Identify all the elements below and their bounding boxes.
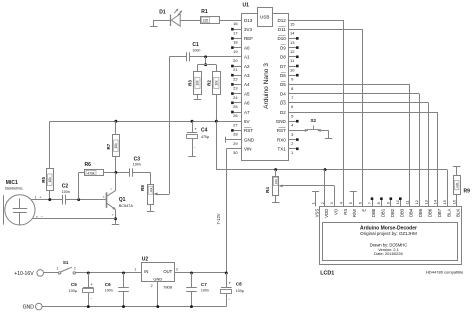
- svg-text:25: 25: [233, 104, 238, 109]
- svg-text:20: 20: [233, 58, 238, 63]
- svg-text:3V3: 3V3: [244, 27, 253, 32]
- svg-text:6: 6: [358, 202, 362, 204]
- svg-text:GND: GND: [276, 119, 287, 124]
- svg-text:7: 7: [368, 202, 372, 204]
- svg-text:1: 1: [135, 267, 137, 271]
- svg-text:10: 10: [290, 67, 295, 72]
- svg-text:REF: REF: [244, 36, 253, 41]
- svg-text:~: ~: [90, 297, 92, 301]
- svg-text:15: 15: [443, 200, 447, 204]
- svg-text:D6: D6: [280, 73, 286, 78]
- svg-text:D9: D9: [280, 45, 286, 50]
- svg-text:VIN: VIN: [244, 147, 252, 152]
- svg-text:BC547A: BC547A: [119, 204, 134, 208]
- svg-text:R3: R3: [188, 80, 193, 86]
- svg-text:470µ: 470µ: [201, 135, 209, 139]
- svg-text:7-12V: 7-12V: [216, 213, 221, 224]
- svg-text:+10-16V: +10-16V: [14, 271, 34, 277]
- svg-text:~: ~: [194, 146, 196, 150]
- svg-text:DB6: DB6: [428, 208, 433, 217]
- svg-text:R8: R8: [140, 185, 145, 191]
- svg-text:R7: R7: [106, 143, 111, 149]
- svg-text:A3: A3: [244, 73, 250, 78]
- svg-text:+: +: [194, 127, 197, 132]
- svg-text:GND: GND: [244, 137, 255, 142]
- svg-text:27: 27: [233, 122, 238, 127]
- svg-text:5: 5: [349, 202, 353, 204]
- svg-text:23: 23: [233, 86, 238, 91]
- svg-text:1: 1: [35, 195, 37, 199]
- svg-text:28: 28: [233, 132, 238, 137]
- svg-text:100µ: 100µ: [236, 289, 244, 293]
- svg-text:A6: A6: [244, 101, 250, 106]
- svg-text:~: ~: [228, 298, 230, 302]
- svg-text:12: 12: [290, 49, 295, 54]
- svg-text:10k: 10k: [48, 177, 52, 183]
- svg-text:13: 13: [290, 40, 295, 45]
- svg-text:DB1: DB1: [380, 208, 385, 217]
- svg-text:13: 13: [424, 200, 428, 204]
- svg-text:VSS: VSS: [315, 209, 320, 218]
- svg-text:D7: D7: [280, 64, 286, 69]
- svg-text:A7: A7: [244, 110, 250, 115]
- svg-text:100µ: 100µ: [69, 289, 77, 293]
- svg-text:VDD: VDD: [324, 209, 329, 218]
- svg-text:C8: C8: [236, 282, 242, 287]
- svg-text:DB2: DB2: [390, 208, 395, 217]
- svg-text:C7: C7: [201, 282, 207, 287]
- svg-text:14: 14: [290, 31, 295, 36]
- svg-text:A2: A2: [244, 64, 250, 69]
- svg-text:16: 16: [233, 21, 238, 26]
- svg-text:R5: R5: [41, 176, 46, 182]
- svg-text:22: 22: [233, 76, 238, 81]
- svg-text:A0: A0: [244, 45, 250, 50]
- svg-text:R6: R6: [85, 162, 92, 168]
- svg-text:24: 24: [233, 95, 238, 100]
- svg-text:29: 29: [233, 141, 238, 146]
- svg-text:A5: A5: [244, 91, 250, 96]
- svg-text:2: 2: [74, 267, 76, 271]
- svg-text:RST: RST: [244, 128, 253, 133]
- svg-text:MIC1: MIC1: [6, 180, 18, 186]
- svg-text:C6: C6: [105, 282, 111, 287]
- svg-text:7808: 7808: [163, 284, 173, 289]
- svg-text:100n: 100n: [133, 163, 141, 167]
- svg-text:16: 16: [453, 200, 457, 204]
- svg-text:RS: RS: [343, 209, 348, 215]
- svg-text:10k: 10k: [149, 187, 153, 192]
- svg-text:BLK: BLK: [456, 209, 461, 217]
- svg-text:E: E: [362, 209, 367, 212]
- svg-text:C4: C4: [201, 128, 208, 134]
- svg-text:3: 3: [330, 202, 334, 204]
- svg-text:+: +: [39, 195, 41, 199]
- svg-text:D11: D11: [278, 27, 286, 32]
- svg-text:100n: 100n: [62, 190, 70, 194]
- svg-text:RX0: RX0: [277, 137, 286, 142]
- svg-text:5V: 5V: [244, 119, 250, 124]
- svg-text:R2: R2: [207, 80, 212, 86]
- svg-text:C5: C5: [71, 282, 77, 287]
- svg-text:3: 3: [176, 267, 178, 271]
- svg-text:26: 26: [233, 113, 238, 118]
- svg-text:DB5: DB5: [418, 208, 423, 217]
- svg-text:USB: USB: [260, 15, 269, 20]
- svg-text:RST: RST: [277, 128, 286, 133]
- svg-text:8: 8: [377, 202, 381, 204]
- svg-text:LCD1: LCD1: [320, 271, 334, 277]
- svg-text:10k: 10k: [274, 179, 278, 184]
- svg-text:OUT: OUT: [163, 269, 172, 274]
- svg-text:100n: 100n: [201, 289, 209, 293]
- svg-text:1: 1: [57, 267, 59, 271]
- svg-text:D2: D2: [280, 110, 286, 115]
- svg-text:10: 10: [396, 200, 400, 204]
- svg-text:DB3: DB3: [399, 208, 404, 217]
- svg-text:+: +: [91, 282, 94, 287]
- svg-text:S1: S1: [63, 260, 69, 265]
- svg-text:U1: U1: [243, 3, 250, 9]
- svg-text:D1: D1: [159, 9, 166, 15]
- svg-text:30: 30: [233, 150, 238, 155]
- svg-text:Arduino Nano 3: Arduino Nano 3: [263, 63, 270, 109]
- svg-text:DB4: DB4: [409, 208, 414, 217]
- svg-text:S2: S2: [310, 118, 316, 123]
- svg-text:11: 11: [406, 200, 410, 204]
- svg-text:C1: C1: [192, 42, 199, 48]
- svg-text:D8: D8: [280, 55, 286, 60]
- svg-text:2: 2: [321, 202, 325, 204]
- svg-text:470k: 470k: [87, 171, 95, 175]
- svg-text:17: 17: [233, 30, 238, 35]
- svg-text:TX1: TX1: [278, 147, 287, 152]
- svg-text:1: 1: [311, 202, 315, 204]
- svg-text:15: 15: [290, 21, 295, 26]
- svg-text:Original project by: OZ1JHM: Original project by: OZ1JHM: [360, 231, 417, 236]
- svg-text:R9: R9: [464, 189, 471, 195]
- svg-text:100n: 100n: [192, 48, 200, 52]
- svg-text:D13: D13: [244, 18, 253, 23]
- svg-text:+: +: [229, 281, 232, 286]
- svg-text:10k: 10k: [196, 80, 200, 86]
- svg-text:GND: GND: [153, 276, 162, 281]
- svg-text:D12: D12: [278, 18, 287, 23]
- svg-text:VO: VO: [333, 208, 338, 215]
- svg-text:21: 21: [233, 67, 238, 72]
- svg-text:BLA: BLA: [446, 209, 451, 217]
- svg-text:220: 220: [455, 182, 459, 187]
- svg-text:Date: 20160226: Date: 20160226: [374, 251, 403, 256]
- svg-text:2: 2: [151, 284, 153, 288]
- svg-text:HD44780 compatible: HD44780 compatible: [426, 270, 464, 275]
- svg-text:R/W: R/W: [352, 208, 357, 217]
- svg-text:Q1: Q1: [119, 197, 126, 203]
- svg-text:DB7: DB7: [437, 208, 442, 217]
- svg-text:A1: A1: [244, 55, 250, 60]
- svg-text:DB0: DB0: [371, 208, 376, 217]
- svg-text:10k: 10k: [114, 143, 118, 149]
- svg-text:14: 14: [434, 200, 438, 204]
- svg-text:18: 18: [233, 40, 238, 45]
- svg-text:4: 4: [340, 202, 344, 204]
- svg-text:R1: R1: [201, 9, 208, 15]
- svg-text:C2: C2: [62, 184, 69, 190]
- svg-text:Elektretmic.: Elektretmic.: [5, 186, 23, 190]
- svg-text:A4: A4: [244, 82, 250, 87]
- svg-text:D10: D10: [278, 36, 287, 41]
- svg-text:220: 220: [203, 18, 209, 22]
- svg-text:19: 19: [233, 49, 238, 54]
- svg-text:D4: D4: [280, 91, 286, 96]
- svg-text:10k: 10k: [215, 80, 219, 86]
- svg-text:100n: 100n: [105, 289, 113, 293]
- svg-text:R4: R4: [265, 187, 270, 193]
- svg-text:D3: D3: [280, 101, 286, 106]
- svg-text:IN: IN: [144, 269, 148, 274]
- svg-text:D5: D5: [280, 82, 286, 87]
- svg-text:GND: GND: [23, 305, 35, 311]
- svg-text:12: 12: [415, 200, 419, 204]
- svg-text:9: 9: [387, 202, 391, 204]
- svg-text:U2: U2: [142, 256, 149, 262]
